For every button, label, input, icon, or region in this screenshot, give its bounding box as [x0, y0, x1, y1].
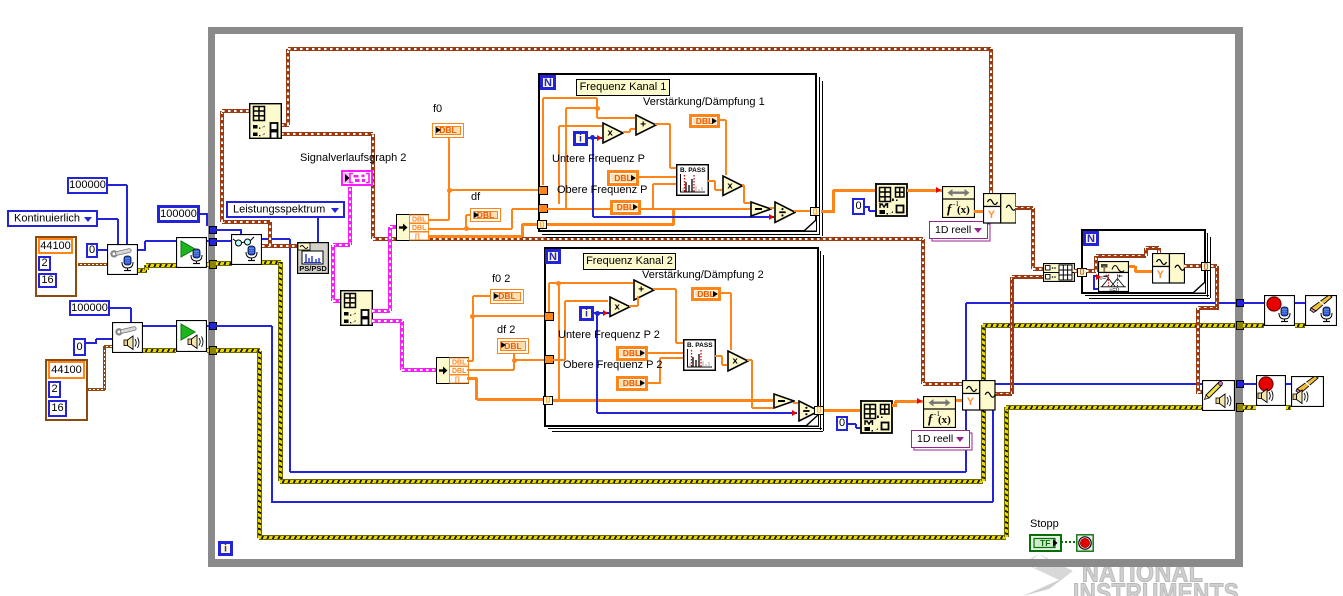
svg-text:i: i [585, 309, 588, 320]
svg-text:PS/PSD: PS/PSD [299, 264, 327, 273]
svg-text:N: N [1087, 233, 1095, 245]
svg-text:DBL: DBL [452, 359, 467, 366]
svg-text:(x): (x) [938, 414, 951, 426]
svg-text:TF: TF [1040, 537, 1050, 547]
svg-text:Y: Y [987, 209, 995, 221]
svg-text:i: i [579, 133, 582, 144]
svg-text:x: x [727, 180, 733, 191]
svg-text:DBL: DBL [412, 225, 427, 232]
svg-text:μ=0: μ=0 [1110, 288, 1119, 293]
svg-text:[]: [] [455, 376, 460, 383]
svg-text:(x): (x) [957, 204, 970, 216]
svg-text:i: i [224, 544, 227, 555]
svg-text:x: x [614, 301, 620, 312]
svg-text:INSTRUMENTS: INSTRUMENTS [1073, 579, 1239, 596]
svg-text:[]: [] [415, 234, 420, 241]
svg-text:B. PASS: B. PASS [687, 342, 713, 349]
svg-text:Y: Y [1157, 268, 1165, 280]
svg-text:N: N [549, 251, 557, 263]
svg-text:x: x [732, 356, 738, 367]
svg-text:+: + [638, 284, 644, 295]
svg-text:Y: Y [967, 395, 975, 407]
svg-text:DBL: DBL [452, 368, 467, 375]
svg-text:DBL: DBL [412, 217, 427, 224]
svg-text:x: x [608, 128, 614, 139]
svg-text:B. PASS: B. PASS [680, 167, 706, 174]
svg-text:N: N [544, 77, 552, 89]
svg-text:+: + [640, 119, 646, 130]
